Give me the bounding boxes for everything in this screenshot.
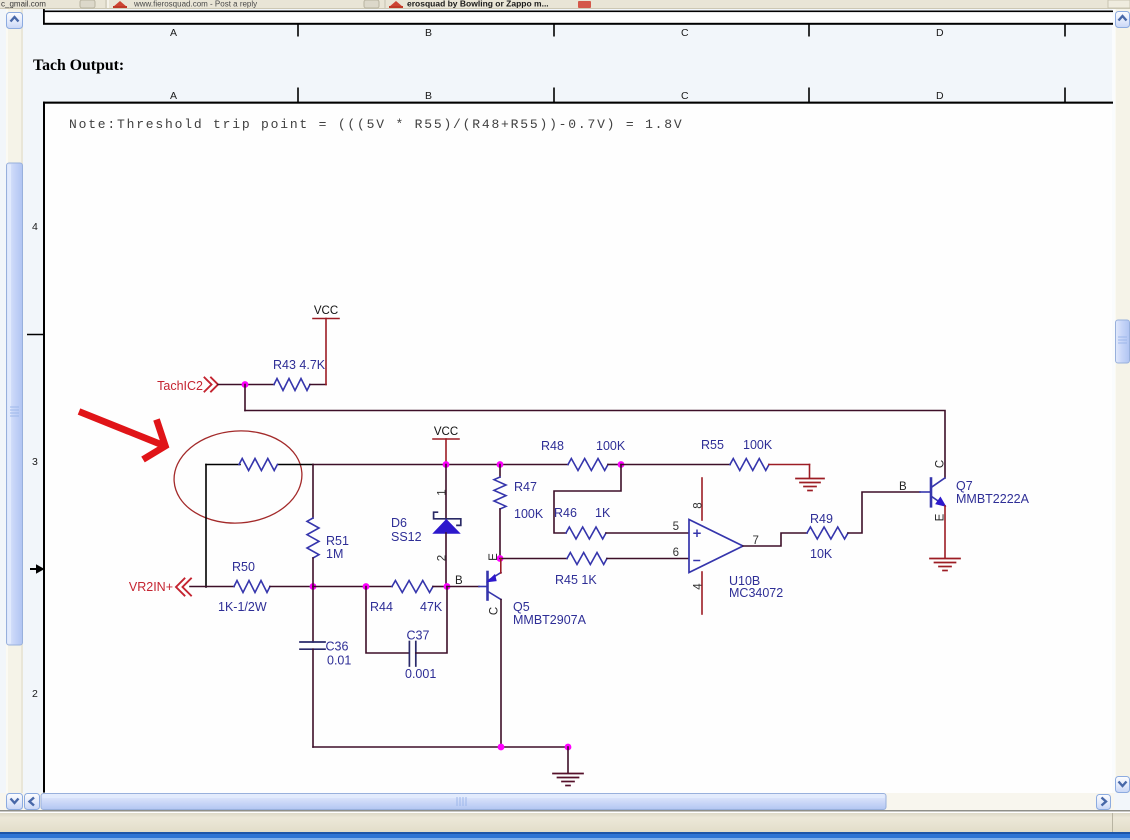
svg-text:47K: 47K (420, 600, 443, 614)
tab 1 close button (80, 0, 95, 8)
tab 3 close icon (red) (578, 1, 591, 8)
left scrollbar down button (7, 794, 23, 810)
left scrollbar up button (7, 13, 23, 29)
power VCC (mid) (433, 426, 459, 465)
svg-text:B: B (425, 27, 432, 39)
sheet 2 left border (43, 102, 45, 793)
svg-text:R44: R44 (370, 600, 393, 614)
capacitor C36 (300, 587, 351, 748)
horizontal scrollbar strip (0, 793, 1114, 810)
ground (R55) (796, 479, 824, 491)
svg-text:c_gmail.com: c_gmail.com (1, 0, 46, 9)
bottom blue bar (0, 832, 1130, 834)
svg-text:SS12: SS12 (391, 530, 422, 544)
port VR2IN+ (129, 579, 191, 596)
svg-text:10K: 10K (810, 547, 833, 561)
ruler tick marks below sheet 1 (298, 24, 1065, 37)
horizontal scrollbar right arrow button (1097, 795, 1111, 810)
svg-text:E: E (488, 553, 500, 561)
svg-text:C: C (489, 607, 501, 615)
ruler tick marks above sheet 2 (298, 88, 1065, 103)
resistor R47 (494, 465, 544, 559)
wire R55 run (621, 464, 730, 466)
diode D6 (schottky SS12) (433, 512, 461, 533)
tab 2 close button (364, 0, 379, 8)
node junction bottom/ground (565, 744, 572, 751)
svg-text:R47: R47 (514, 480, 537, 494)
wire Q5 collector down (500, 600, 502, 748)
right scrollbar thumb (1116, 320, 1130, 363)
node junction VCC mid (443, 461, 450, 468)
right scrollbar up button (1116, 12, 1130, 28)
resistor R55 (701, 438, 810, 471)
svg-text:4: 4 (693, 583, 705, 590)
svg-text:R46: R46 (554, 506, 577, 520)
svg-text:1K: 1K (595, 506, 611, 520)
wire node down (244, 385, 246, 411)
right scrollbar down button (1116, 777, 1130, 793)
svg-text:Q7: Q7 (956, 479, 973, 493)
svg-text:3: 3 (32, 456, 38, 468)
wire B node to Q5 base (447, 586, 479, 588)
wire ground stem (bottom) (567, 747, 569, 773)
wire main mid run (node to R48) (313, 464, 568, 466)
ground (bottom) (553, 774, 583, 786)
label Q5 MMBT2907A (513, 600, 587, 627)
transistor Q7 (920, 478, 946, 506)
sheet 2 interior (44, 103, 1112, 793)
svg-text:R43 4.7K: R43 4.7K (273, 358, 326, 372)
wire Q7 emitter to ground (944, 506, 946, 558)
node junction R48/R55/R46 (618, 461, 625, 468)
svg-text:R49: R49 (810, 512, 833, 526)
svg-text:1K-1/2W: 1K-1/2W (218, 600, 267, 614)
svg-text:A: A (170, 90, 177, 102)
wire R46 to op-amp pin5 (606, 532, 689, 534)
annotation: red arrow (79, 412, 165, 460)
tab 2 favicon (red) (113, 1, 127, 7)
status bar (0, 810, 1130, 812)
svg-text:R50: R50 (232, 560, 255, 574)
svg-text:VR2IN+: VR2IN+ (129, 580, 173, 594)
node junction B (444, 583, 451, 590)
sheet 1 inner border line (43, 11, 1113, 13)
svg-text:MC34072: MC34072 (729, 586, 783, 600)
wire R49 to Q7 base (848, 492, 920, 533)
svg-text:C: C (681, 27, 689, 39)
wire bottom run (313, 746, 568, 748)
transistor Q5 (479, 572, 501, 600)
sheet 2 top border (43, 102, 1113, 104)
svg-text:B: B (425, 90, 432, 102)
ruler letters row (sheet 1 bottom margin) (170, 27, 944, 39)
horizontal scrollbar left arrow button (25, 794, 40, 810)
svg-text:1: 1 (437, 489, 449, 495)
svg-text:C36: C36 (326, 640, 349, 654)
resistor R45 (555, 553, 607, 588)
op-amp U10B power stubs (701, 478, 703, 520)
svg-text:8: 8 (693, 502, 705, 508)
svg-text:100K: 100K (514, 507, 544, 521)
svg-text:erosquad by Bowling or Zappo m: erosquad by Bowling or Zappo m... (407, 0, 549, 9)
node junction TachIC2/R43 (242, 381, 249, 388)
svg-text:A: A (170, 27, 177, 39)
annotation: added resistor zigzag (239, 459, 277, 471)
ground (Q7) (930, 559, 960, 571)
svg-text:D: D (936, 90, 944, 102)
row boundary tick on left border (27, 334, 44, 336)
wire port to R43 (218, 384, 274, 386)
right vertical scrollbar track (1114, 9, 1130, 793)
wire R55 to ground (809, 465, 811, 479)
wire Q5 emitter to E node (500, 559, 502, 574)
resistor R49 (807, 512, 848, 561)
svg-text:Note:Threshold trip point = ((: Note:Threshold trip point = (((5V * R55)… (69, 117, 683, 132)
svg-text:Q5: Q5 (513, 600, 530, 614)
node junction E (Q5 emitter) (497, 555, 504, 562)
resistor R44 (370, 581, 447, 615)
node junction R50/R51/C36 (310, 583, 317, 590)
svg-text:C: C (681, 90, 689, 102)
wire long top run to Q7 collector (245, 411, 945, 479)
svg-text:www.fierosquad.com - Post a re: www.fierosquad.com - Post a reply (133, 0, 257, 9)
left vertical scrollbar track (6, 9, 23, 794)
op-amp U10B (689, 520, 743, 573)
svg-text:5: 5 (673, 521, 679, 533)
svg-text:100K: 100K (596, 439, 626, 453)
sheet 1 left border (43, 9, 45, 24)
annotation: added resistor (circled) black leads (206, 465, 313, 588)
node junction R44/C37 left (363, 583, 370, 590)
svg-text:VCC: VCC (434, 426, 458, 438)
label U10B MC34072 (729, 574, 783, 600)
tab 3 favicon (red) (389, 1, 403, 7)
svg-text:2: 2 (437, 555, 449, 561)
resistor R46 (554, 506, 611, 539)
svg-text:D: D (936, 27, 944, 39)
svg-text:VCC: VCC (314, 305, 338, 317)
svg-text:MMBT2222A: MMBT2222A (956, 492, 1030, 506)
wire B-line (R50 node to R44) (313, 586, 392, 588)
horizontal scrollbar thumb (41, 794, 886, 810)
svg-text:C37: C37 (407, 629, 430, 643)
ruler letters row (sheet 2 top margin) (170, 90, 944, 102)
svg-text:R45 1K: R45 1K (555, 573, 597, 587)
svg-text:R55: R55 (701, 438, 724, 452)
tab divider 2 (384, 0, 386, 8)
svg-text:R48: R48 (541, 439, 564, 453)
svg-text:B: B (899, 481, 907, 493)
svg-text:TachIC2: TachIC2 (157, 379, 203, 393)
label Q7 MMBT2222A (956, 479, 1030, 506)
svg-text:C: C (935, 460, 947, 468)
tab strip right button edge (1108, 0, 1130, 8)
diode D6 pin 2 wire (445, 533, 447, 587)
node junction R47 top (497, 461, 504, 468)
svg-text:B: B (455, 575, 463, 587)
port TachIC2 (157, 378, 218, 394)
svg-text:0.001: 0.001 (405, 667, 436, 681)
wire feedback Z (node to R46) (554, 465, 621, 534)
svg-text:0.01: 0.01 (327, 654, 351, 668)
sheet 1 (previous schematic page, bottom sliver) (44, 11, 1112, 23)
node junction Q5 collector/bottom (498, 744, 505, 751)
capacitor C37 (366, 587, 447, 682)
svg-text:6: 6 (673, 547, 679, 559)
svg-text:D6: D6 (391, 516, 407, 530)
wire R45 to op-amp pin6 (607, 558, 689, 560)
diode D6 pin 1 wire (445, 465, 447, 520)
left scrollbar thumb (7, 163, 23, 645)
browser tab strip (top, clipped) (0, 0, 1130, 9)
wire E node to R45 (500, 558, 567, 560)
annotation: red ellipse (171, 427, 305, 528)
svg-text:100K: 100K (743, 438, 773, 452)
label D6 SS12 (391, 516, 422, 544)
sheet 1 bottom border (43, 23, 1113, 25)
svg-text:2: 2 (32, 688, 38, 700)
wire op-amp output to R49 (743, 533, 807, 546)
svg-text:R51: R51 (326, 534, 349, 548)
tab divider (105, 0, 107, 8)
svg-text:1M: 1M (326, 547, 343, 561)
resistor R50 (218, 560, 313, 614)
annotation arrow at left border (30, 564, 45, 574)
svg-text:4: 4 (32, 221, 38, 233)
power VCC (R43) (313, 305, 339, 385)
resistor R43 (273, 358, 326, 391)
wire port to R50 (190, 586, 234, 588)
svg-text:MMBT2907A: MMBT2907A (513, 613, 587, 627)
svg-text:Tach Output:: Tach Output: (33, 57, 124, 74)
resistor R48 (541, 439, 626, 471)
resistor R51 (307, 465, 349, 587)
